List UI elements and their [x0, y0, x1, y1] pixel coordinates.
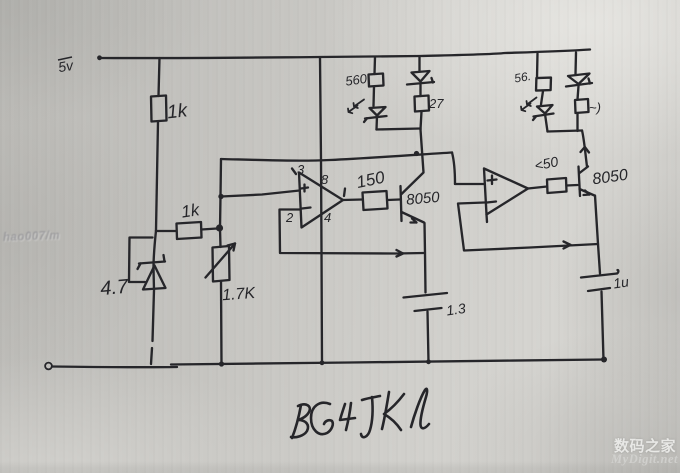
svg-text:1.3: 1.3: [445, 300, 467, 319]
svg-text:8: 8: [321, 172, 329, 187]
svg-text:150: 150: [355, 167, 387, 192]
svg-text:1u: 1u: [612, 273, 630, 291]
svg-text:4: 4: [324, 210, 331, 225]
svg-text:1.7K: 1.7K: [222, 285, 257, 304]
svg-text:~): ~): [589, 100, 601, 115]
svg-text:560: 560: [344, 71, 368, 89]
svg-text:8050: 8050: [406, 189, 441, 209]
svg-text:3: 3: [297, 162, 305, 177]
svg-text:1k: 1k: [180, 200, 202, 222]
svg-text:56.: 56.: [513, 69, 532, 86]
svg-text:27: 27: [428, 96, 444, 111]
svg-text:8050: 8050: [591, 167, 629, 189]
svg-text:<50: <50: [533, 153, 560, 174]
svg-text:1k: 1k: [166, 100, 190, 123]
svg-text:2: 2: [285, 210, 294, 225]
svg-text:4.7: 4.7: [99, 276, 129, 300]
